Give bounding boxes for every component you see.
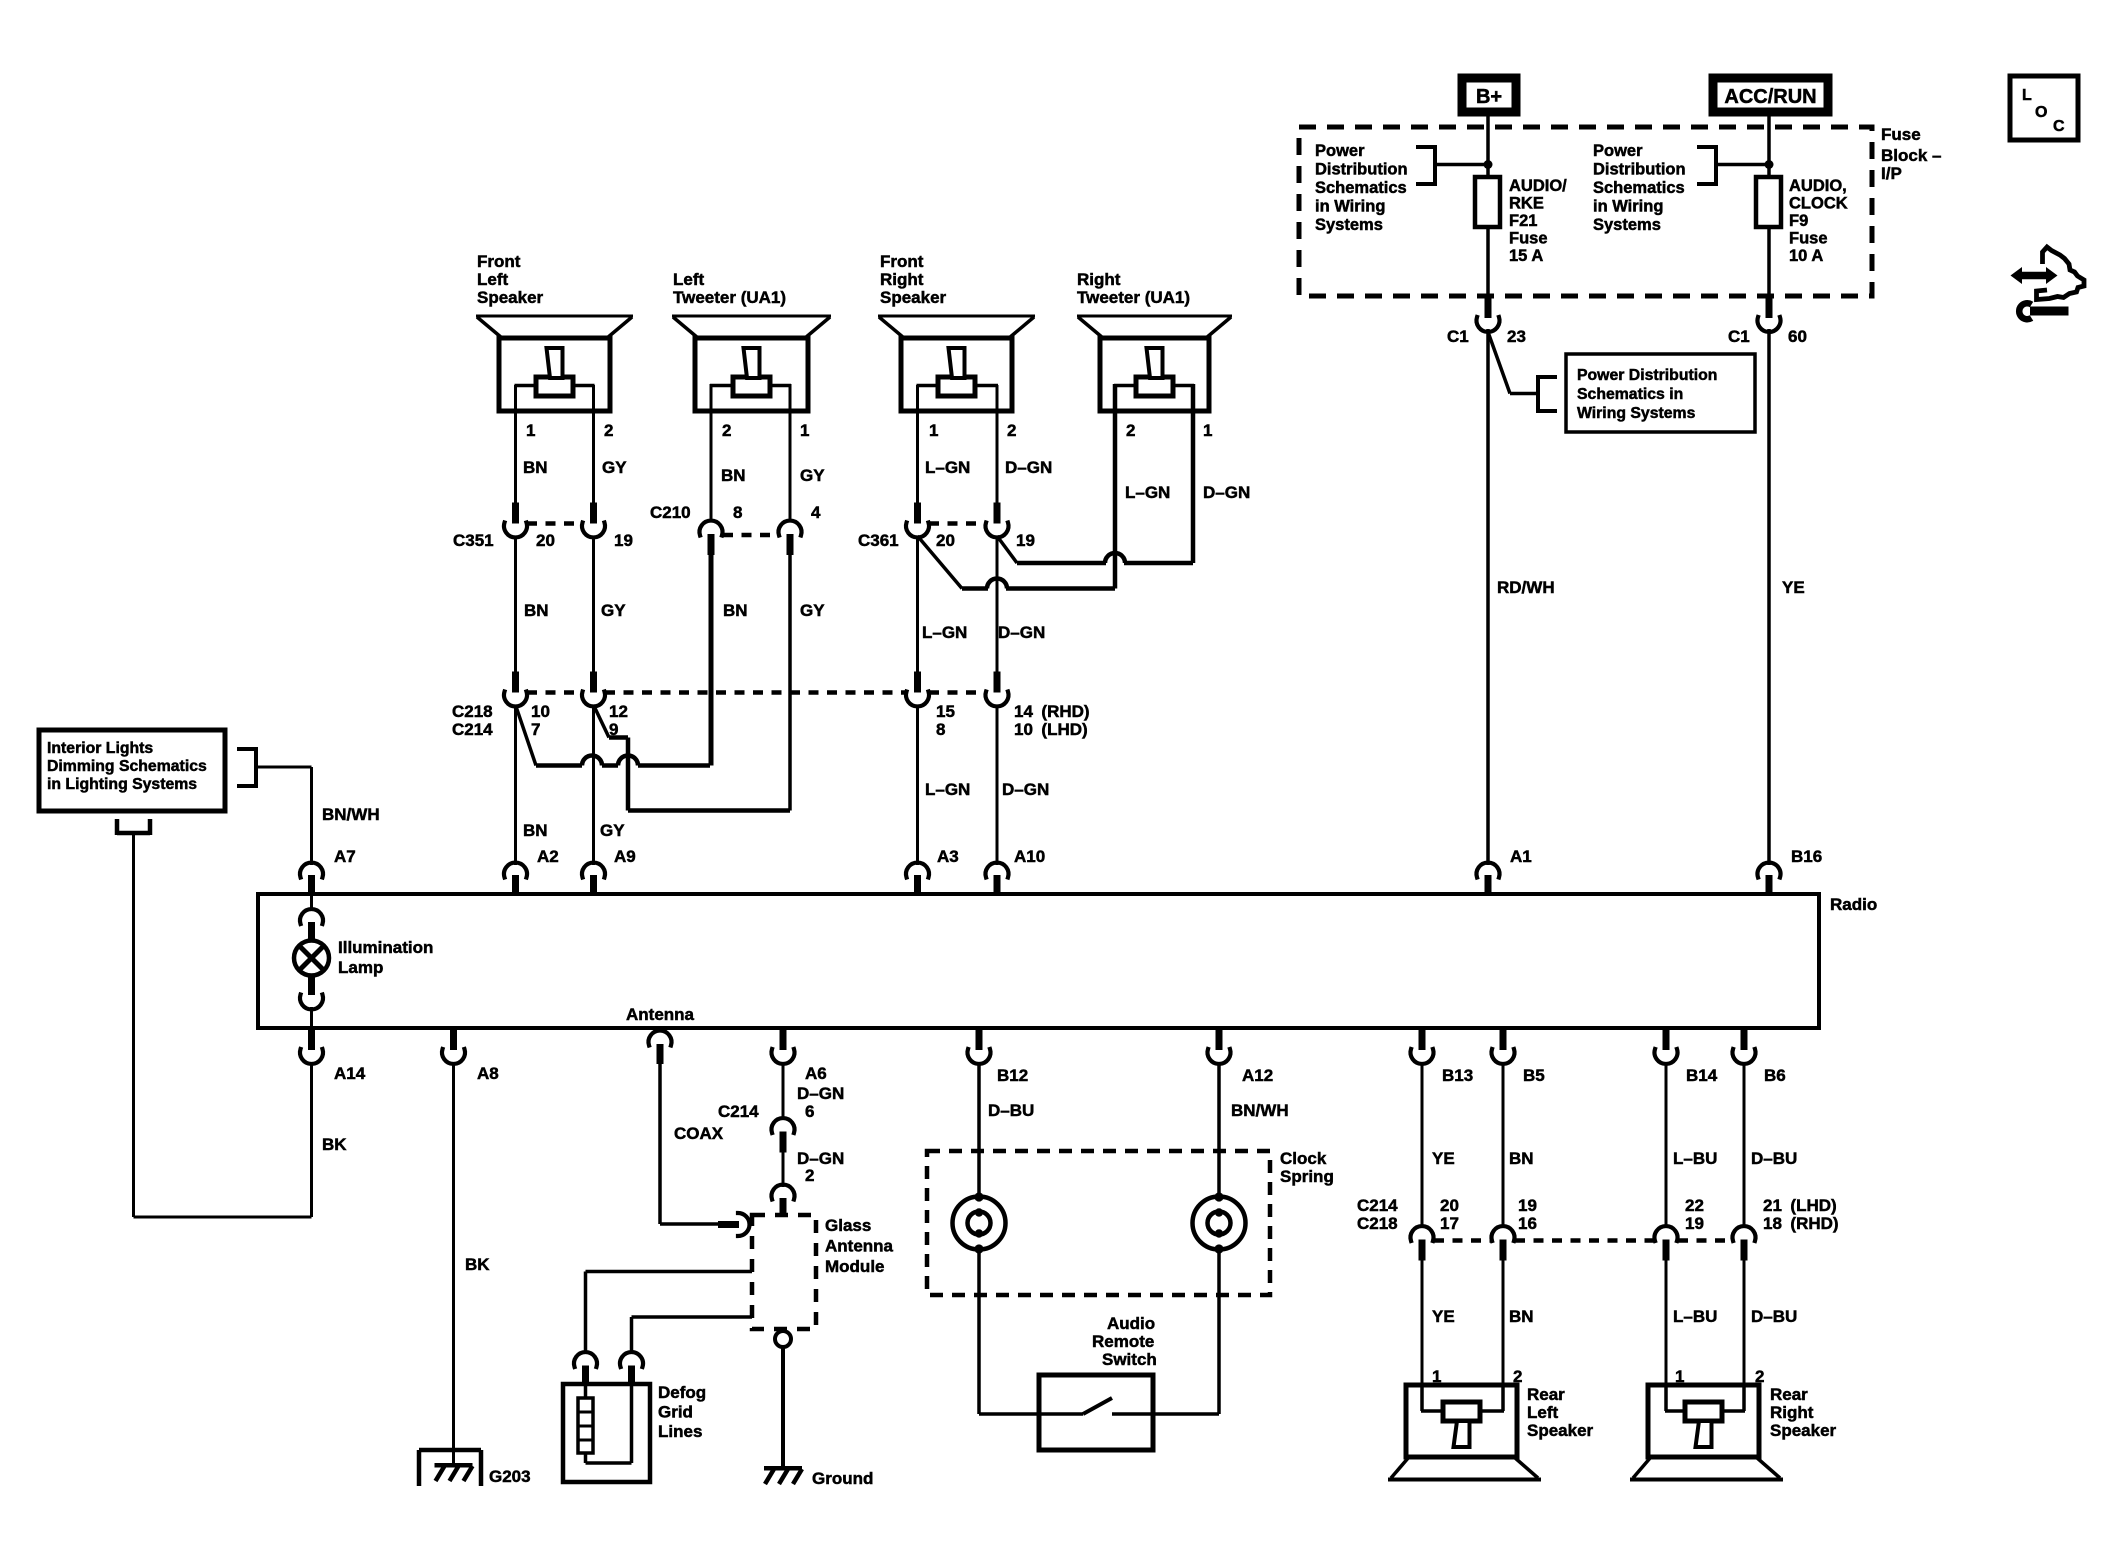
label Front Left Speaker (477, 252, 544, 307)
svg-text:B5: B5 (1523, 1066, 1545, 1085)
radio pin B5 (1492, 1029, 1515, 1064)
svg-text:15 A: 15 A (1509, 247, 1543, 265)
note box Power Distribution Schematics in Wiring Systems (1566, 354, 1755, 432)
svg-text:G203: G203 (489, 1467, 531, 1486)
svg-text:Right: Right (1770, 1403, 1814, 1422)
svg-text:C210: C210 (650, 503, 691, 522)
svg-text:Lines: Lines (658, 1422, 702, 1441)
svg-text:Interior Lights: Interior Lights (47, 740, 153, 757)
wire D–BU rear connector to rear speaker (1743, 1259, 1746, 1385)
svg-text:Wiring Systems: Wiring Systems (1577, 405, 1696, 422)
svg-text:Power: Power (1593, 142, 1643, 160)
label Rear Right Speaker (1770, 1385, 1837, 1440)
svg-text:C1: C1 (1728, 327, 1750, 346)
glass antenna module input pin (772, 1185, 795, 1217)
coax connector at glass antenna module (738, 1213, 750, 1236)
svg-text:Right: Right (880, 270, 924, 289)
pin labels front left speaker 1 2 (526, 421, 613, 440)
svg-text:C361: C361 (858, 531, 899, 550)
wire fuse F9 to C1-60 (1767, 227, 1771, 298)
wire YE C1-60 to radio B16 (1767, 329, 1771, 865)
svg-text:20: 20 (1440, 1196, 1459, 1215)
svg-text:COAX: COAX (674, 1124, 724, 1143)
svg-text:Clock: Clock (1280, 1149, 1327, 1168)
svg-text:BN: BN (524, 601, 549, 620)
svg-text:23: 23 (1507, 327, 1526, 346)
svg-text:Illumination: Illumination (338, 938, 433, 957)
label Clock Spring (1280, 1149, 1334, 1186)
wire interior lights return to radio A14 (134, 835, 312, 1217)
svg-text:10 A: 10 A (1789, 247, 1823, 265)
svg-text:Dimming Schematics: Dimming Schematics (47, 758, 207, 775)
note Power Distribution Schematics in Wiring Systems (left) (1315, 142, 1408, 234)
svg-text:Schematics: Schematics (1315, 179, 1407, 197)
radio pin A3 (906, 863, 929, 896)
fuse F21 AUDIO/RKE 15A (1475, 177, 1500, 229)
radio pin A14 (300, 1029, 323, 1064)
svg-text:C: C (2053, 118, 2065, 135)
connector C210 pin 4 (779, 521, 802, 536)
svg-text:Schematics: Schematics (1593, 179, 1685, 197)
radio pin Antenna (649, 1031, 672, 1064)
radio pin A10 (986, 863, 1009, 896)
svg-text:2: 2 (722, 421, 731, 440)
speaker Rear Right Speaker (1630, 1385, 1783, 1480)
wire BN/WH interior lights to radio A7 (256, 767, 312, 865)
clock spring dashed box (927, 1151, 1270, 1295)
note Power Distribution Schematics in Wiring Systems (right) (1593, 142, 1686, 234)
pin labels left tweeter 2 1 (722, 421, 809, 440)
wire BN C351-20 to C218-10 (514, 536, 517, 673)
svg-text:1: 1 (526, 421, 535, 440)
connector rear C214/C218 pin 21/18 (1733, 1226, 1756, 1241)
fuse block I/P dashed box (1299, 127, 1872, 296)
wire GY C218-12 to radio A9 (592, 705, 595, 865)
svg-text:BN: BN (1509, 1307, 1534, 1326)
svg-text:Systems: Systems (1315, 216, 1383, 234)
label Left Tweeter (UA1) (673, 270, 786, 307)
svg-text:Front: Front (477, 252, 521, 271)
connector rear C214/C218 pin 20/17 (1411, 1226, 1434, 1241)
svg-text:AUDIO,: AUDIO, (1789, 177, 1847, 195)
connector C1 pin 23 (1477, 297, 1500, 332)
svg-text:A6: A6 (805, 1064, 827, 1083)
defog grid pin 2 connector (620, 1352, 643, 1385)
svg-text:Distribution: Distribution (1315, 161, 1408, 179)
radio pin A2 (504, 863, 527, 896)
svg-text:in Wiring: in Wiring (1315, 198, 1385, 216)
svg-text:Remote: Remote (1092, 1332, 1154, 1351)
dashed connector line C351 (527, 521, 582, 526)
svg-text:BN/WH: BN/WH (1231, 1101, 1289, 1120)
svg-text:19: 19 (1016, 531, 1035, 550)
svg-text:Defog: Defog (658, 1383, 706, 1402)
connector C218/C214 pin 14/10 (994, 672, 1001, 693)
ground G203 (419, 1450, 481, 1486)
connector rear C214/C218 pin 22/19 (1654, 1226, 1677, 1241)
svg-text:C214: C214 (1357, 1196, 1398, 1215)
svg-text:Grid: Grid (658, 1403, 693, 1422)
LOC legend box (2010, 76, 2078, 140)
wire jumper C218-10 to left tweeter BN (516, 705, 711, 766)
wire module ground (781, 1347, 785, 1466)
label Defog Grid Lines (658, 1383, 706, 1441)
svg-text:D–BU: D–BU (1751, 1149, 1797, 1168)
svg-text:GY: GY (800, 466, 825, 485)
svg-text:YE: YE (1432, 1149, 1455, 1168)
label C361 20 19 (858, 531, 1035, 550)
svg-text:Ground: Ground (812, 1469, 873, 1488)
label pins 22 19 (1685, 1196, 1704, 1233)
svg-text:12: 12 (609, 702, 628, 721)
radio pin A6 (772, 1029, 795, 1064)
svg-text:17: 17 (1440, 1214, 1459, 1233)
svg-text:Power Distribution: Power Distribution (1577, 367, 1717, 384)
wire BN radio to rear C214/C218 (1502, 1062, 1505, 1228)
defog grid lines box (563, 1384, 650, 1482)
svg-text:BN: BN (1509, 1149, 1534, 1168)
wire hop over L-GN (1105, 553, 1125, 563)
connector C210 pin 8 (700, 521, 723, 536)
wire BN rear connector to rear speaker (1502, 1259, 1505, 1385)
svg-text:GY: GY (602, 458, 627, 477)
svg-text:A8: A8 (477, 1064, 499, 1083)
wire RD/WH C1-23 to radio A1 (1486, 329, 1490, 865)
wire D-BU radio B12 to clock spring (977, 1062, 981, 1197)
svg-text:4: 4 (811, 503, 821, 522)
wire L-GN front right speaker pin1 (916, 385, 919, 503)
svg-text:L–GN: L–GN (925, 780, 970, 799)
wire GY left tweeter to junction (788, 554, 792, 811)
svg-text:Antenna: Antenna (626, 1005, 695, 1024)
wire BN front left speaker pin1 (514, 385, 517, 503)
speaker Rear Left Speaker (1388, 1385, 1541, 1480)
svg-text:B16: B16 (1791, 847, 1822, 866)
svg-text:Speaker: Speaker (1770, 1421, 1837, 1440)
svg-text:Module: Module (825, 1257, 885, 1276)
radio pin B16 (1758, 863, 1781, 896)
connector C218/C214 pin 15/8 (914, 672, 921, 693)
wire YE rear connector to rear speaker (1421, 1259, 1424, 1385)
svg-text:Block –: Block – (1881, 146, 1941, 165)
svg-text:19: 19 (1518, 1196, 1537, 1215)
svg-text:B+: B+ (1476, 86, 1502, 108)
connector C214 pin 6 (772, 1118, 795, 1133)
wire clock spring to audio remote switch left (979, 1250, 1083, 1414)
svg-text:GY: GY (601, 601, 626, 620)
svg-text:YE: YE (1782, 578, 1805, 597)
svg-text:BK: BK (465, 1255, 490, 1274)
label D-GN 2 (797, 1149, 844, 1185)
label C1 60 (1728, 327, 1807, 346)
svg-text:YE: YE (1432, 1307, 1455, 1326)
svg-text:A14: A14 (334, 1064, 366, 1083)
wire D-GN right tweeter pin1 (1191, 384, 1196, 563)
label C214 C218 (1357, 1196, 1398, 1233)
svg-text:10: 10 (531, 702, 550, 721)
svg-text:A1: A1 (1510, 847, 1532, 866)
wire clock spring to audio remote switch right (1112, 1250, 1219, 1414)
wire GY left tweeter pin1 (789, 384, 792, 522)
wire GY front left speaker pin2 (592, 385, 595, 503)
radio pin B6 (1733, 1029, 1756, 1064)
label pins 12 9 (609, 702, 628, 739)
svg-text:Schematics in: Schematics in (1577, 386, 1683, 403)
svg-text:Glass: Glass (825, 1216, 871, 1235)
label C1 23 (1447, 327, 1526, 346)
svg-text:21 (LHD): 21 (LHD) (1763, 1196, 1837, 1215)
bracket to power distribution note (left) (1416, 145, 1435, 186)
svg-text:18 (RHD): 18 (RHD) (1763, 1214, 1839, 1233)
service tools icon (2011, 247, 2085, 319)
svg-text:BN: BN (523, 458, 548, 477)
pin labels right tweeter 2 1 (1126, 421, 1212, 440)
svg-text:Fuse: Fuse (1789, 230, 1828, 248)
svg-text:Fuse: Fuse (1881, 125, 1921, 144)
wire glass antenna module to defog grid pin1 (586, 1272, 753, 1355)
connector C1 pin 60 (1758, 297, 1781, 332)
svg-text:BN/WH: BN/WH (322, 805, 380, 824)
connector C361 pin 20 (914, 503, 921, 524)
svg-text:A3: A3 (937, 847, 959, 866)
svg-text:D–GN: D–GN (797, 1084, 844, 1103)
svg-text:Front: Front (880, 252, 924, 271)
svg-text:C214: C214 (452, 720, 493, 739)
svg-text:2: 2 (1126, 421, 1135, 440)
wire jumper C218-12 to left tweeter GY (594, 705, 791, 811)
radio pin A1 (1476, 863, 1499, 896)
switch blade (1083, 1398, 1112, 1414)
speaker Right Tweeter (UA1) (1077, 316, 1232, 411)
label pins 15 8 (936, 702, 955, 739)
radio pin B14 (1654, 1029, 1677, 1064)
radio pin B13 (1411, 1029, 1434, 1064)
clock spring coil right (1193, 1192, 1246, 1253)
note box Interior Lights Dimming Schematics in Lighting Systems (39, 730, 225, 811)
illumination lamp (294, 896, 329, 1027)
radio pin A9 (582, 863, 605, 896)
svg-text:8: 8 (733, 503, 742, 522)
svg-text:Lamp: Lamp (338, 958, 383, 977)
wire fuse F21 to C1-23 (1486, 227, 1490, 298)
wire D-GN front right speaker pin2 (996, 385, 999, 503)
glass antenna module ground pin circle (775, 1331, 791, 1347)
svg-text:L: L (2022, 87, 2032, 104)
audio remote switch box (1039, 1375, 1153, 1450)
bracket to power distribution schematics box (1538, 375, 1557, 413)
connector C351 pin 20 (512, 503, 519, 524)
svg-text:D–GN: D–GN (1002, 780, 1049, 799)
wire jumper C361-19 to right tweeter pin1 (997, 536, 1193, 563)
svg-text:Speaker: Speaker (880, 288, 947, 307)
svg-text:2: 2 (805, 1166, 814, 1185)
label C351 20 19 (453, 531, 633, 550)
svg-text:GY: GY (800, 601, 825, 620)
svg-text:B13: B13 (1442, 1066, 1473, 1085)
svg-text:AUDIO/: AUDIO/ (1509, 177, 1567, 195)
svg-text:Left: Left (673, 270, 705, 289)
connector C218/C214 pin 10/7 (512, 672, 519, 693)
radio pin A7 (300, 863, 323, 896)
svg-text:1: 1 (1203, 421, 1212, 440)
svg-text:14 (RHD): 14 (RHD) (1014, 702, 1090, 721)
wire D-GN radio A6 to C214-6 (782, 1062, 785, 1120)
bracket to power distribution note (right) (1697, 145, 1716, 186)
connector C361 pin 19 (994, 503, 1001, 524)
svg-text:Antenna: Antenna (825, 1237, 894, 1256)
svg-text:O: O (2035, 104, 2047, 121)
wire D-GN C361-19 to C218-14 (996, 536, 999, 673)
svg-text:BK: BK (322, 1135, 347, 1154)
dashed connector line rear C214/C218 (1434, 1238, 1732, 1243)
bracket below interior lights box (117, 819, 150, 835)
label C210 8 4 (650, 503, 821, 522)
svg-text:Distribution: Distribution (1593, 161, 1686, 179)
svg-text:8: 8 (936, 720, 945, 739)
clock spring coil left (953, 1192, 1006, 1253)
wire BN left tweeter to junction (709, 554, 714, 766)
svg-text:CLOCK: CLOCK (1789, 195, 1848, 213)
svg-text:Spring: Spring (1280, 1167, 1334, 1186)
svg-text:L–BU: L–BU (1673, 1149, 1717, 1168)
svg-text:A2: A2 (537, 847, 559, 866)
radio pin A8 (442, 1029, 465, 1064)
svg-text:20: 20 (536, 531, 555, 550)
wire BN/WH radio A12 to clock spring (1217, 1062, 1221, 1197)
label A6 D-GN 6 (797, 1084, 844, 1121)
svg-text:19: 19 (1685, 1214, 1704, 1233)
svg-text:D–GN: D–GN (1005, 458, 1052, 477)
svg-text:D–GN: D–GN (998, 623, 1045, 642)
svg-text:Tweeter (UA1): Tweeter (UA1) (673, 288, 786, 307)
connector C218/C214 pin 12/9 (590, 672, 597, 693)
svg-text:22: 22 (1685, 1196, 1704, 1215)
svg-text:2: 2 (1007, 421, 1016, 440)
svg-text:A12: A12 (1242, 1066, 1273, 1085)
glass antenna module dashed box (752, 1215, 816, 1329)
svg-text:20: 20 (936, 531, 955, 550)
wire L-GN right tweeter pin2 (1113, 384, 1118, 589)
svg-text:F9: F9 (1789, 212, 1808, 230)
svg-text:A10: A10 (1014, 847, 1045, 866)
wire glass antenna module to defog grid pin2 (632, 1317, 753, 1354)
svg-text:F21: F21 (1509, 212, 1537, 230)
wire ACC/RUN vertical (1767, 112, 1771, 179)
svg-text:B12: B12 (997, 1066, 1028, 1085)
svg-text:RKE: RKE (1509, 195, 1544, 213)
junction dot ACC/RUN feed (1765, 160, 1774, 169)
svg-text:Rear: Rear (1770, 1385, 1808, 1404)
wire L-GN C361-20 to C218-15 (916, 536, 919, 673)
wire COAX radio antenna to glass antenna module (660, 1063, 739, 1228)
wire D-GN C218-14 to radio A10 (996, 705, 999, 865)
label C218 C214 (452, 702, 493, 739)
label pins 14(RHD) 10(LHD) (1014, 702, 1090, 739)
wire D-GN C214 to glass antenna module pin 2 (782, 1151, 785, 1187)
wire BN left tweeter pin2 (710, 384, 713, 522)
svg-text:7: 7 (531, 720, 540, 739)
svg-text:L–GN: L–GN (925, 458, 970, 477)
wire hop over GY (582, 756, 602, 766)
svg-text:Switch: Switch (1102, 1350, 1157, 1369)
pin labels rear right speaker 1 2 (1675, 1367, 1764, 1386)
wire YE radio to rear C214/C218 (1421, 1062, 1424, 1228)
wire L-GN C218-15 to radio A3 (916, 705, 919, 865)
label Illumination Lamp (338, 938, 433, 977)
speaker Left Tweeter (UA1) (672, 316, 831, 411)
label Right Tweeter (UA1) (1077, 270, 1190, 307)
svg-text:Right: Right (1077, 270, 1121, 289)
svg-text:D–GN: D–GN (1203, 483, 1250, 502)
svg-text:Rear: Rear (1527, 1385, 1565, 1404)
svg-text:16: 16 (1518, 1214, 1537, 1233)
svg-text:in Lighting Systems: in Lighting Systems (47, 776, 197, 793)
svg-text:GY: GY (600, 821, 625, 840)
ground symbol (764, 1466, 802, 1471)
defog grid element (578, 1384, 632, 1463)
svg-text:in Wiring: in Wiring (1593, 198, 1663, 216)
radio box (258, 894, 1819, 1028)
svg-text:1: 1 (800, 421, 809, 440)
wire L–BU radio to rear C214/C218 (1665, 1062, 1668, 1228)
svg-text:Radio: Radio (1830, 895, 1877, 914)
label pins 19 16 (1518, 1196, 1537, 1233)
svg-text:A7: A7 (334, 847, 356, 866)
fuse F9 AUDIO CLOCK 10A (1756, 177, 1781, 229)
svg-text:Left: Left (1527, 1403, 1559, 1422)
svg-text:Speaker: Speaker (1527, 1421, 1594, 1440)
defog grid pin 1 connector (574, 1352, 597, 1385)
connector rear C214/C218 pin 19/16 (1492, 1226, 1515, 1241)
svg-text:B6: B6 (1764, 1066, 1786, 1085)
svg-text:D–BU: D–BU (1751, 1307, 1797, 1326)
svg-text:L–GN: L–GN (1125, 483, 1170, 502)
svg-text:ACC/RUN: ACC/RUN (1724, 86, 1816, 108)
wire BN C218-10 to radio A2 (514, 705, 517, 865)
svg-text:D–BU: D–BU (988, 1101, 1034, 1120)
power node B+ (1462, 78, 1516, 112)
svg-text:C214: C214 (718, 1102, 759, 1121)
svg-text:Tweeter (UA1): Tweeter (UA1) (1077, 288, 1190, 307)
power node ACC/RUN (1713, 78, 1828, 112)
label pins 10 7 (531, 702, 550, 739)
label Rear Left Speaker (1527, 1385, 1594, 1440)
svg-text:Speaker: Speaker (477, 288, 544, 307)
wire tap to power distribution note (1488, 332, 1538, 394)
pin labels front right speaker 1 2 (929, 421, 1016, 440)
pin labels rear left speaker 1 2 (1432, 1367, 1522, 1386)
label Glass Antenna Module (825, 1216, 894, 1276)
wire bracket to ACC/RUN feed (1716, 163, 1769, 167)
svg-text:10 (LHD): 10 (LHD) (1014, 720, 1088, 739)
bracket right of interior lights box (237, 747, 256, 788)
label pins 20 17 (1440, 1196, 1459, 1233)
wire hop over GY branch (618, 756, 638, 766)
wire B+ vertical (1486, 112, 1490, 179)
svg-text:C218: C218 (452, 702, 493, 721)
svg-text:15: 15 (936, 702, 955, 721)
svg-text:B14: B14 (1686, 1066, 1718, 1085)
wire GY C351-19 to C218-12 (592, 536, 595, 673)
svg-text:RD/WH: RD/WH (1497, 578, 1555, 597)
wire bracket to B+ feed (1435, 163, 1488, 167)
svg-text:6: 6 (805, 1102, 814, 1121)
label Front Right Speaker (880, 252, 947, 307)
label AUDIO/RKE F21 Fuse 15 A (1509, 177, 1567, 265)
svg-text:60: 60 (1788, 327, 1807, 346)
svg-text:BN: BN (721, 466, 746, 485)
label pins 21(LHD) 18(RHD) (1763, 1196, 1839, 1233)
